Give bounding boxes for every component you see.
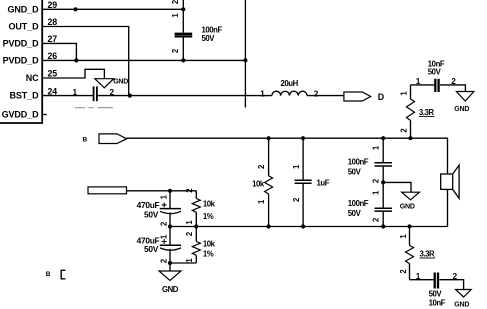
svg-text:1: 1 bbox=[73, 87, 78, 97]
svg-text:2: 2 bbox=[171, 0, 180, 4]
node 100nF mid / GND bbox=[381, 180, 385, 184]
svg-text:2: 2 bbox=[185, 231, 194, 236]
svg-text:1: 1 bbox=[292, 164, 301, 169]
svg-text:PVDD_D: PVDD_D bbox=[3, 55, 40, 65]
svg-text:2: 2 bbox=[257, 164, 266, 169]
svg-text:GVDD_D: GVDD_D bbox=[2, 110, 40, 120]
GND symbol top right bbox=[456, 92, 474, 102]
resistor 3.3R top zigzag bbox=[407, 99, 415, 121]
svg-text:2: 2 bbox=[185, 188, 194, 193]
svg-text:10k: 10k bbox=[252, 179, 265, 188]
resistor 10k-1 zigzag bbox=[192, 199, 200, 213]
svg-text:3.3R: 3.3R bbox=[420, 250, 435, 259]
resistor 3.3R bottom leads bbox=[409, 227, 411, 280]
pin 24 wire BST_D left segment bbox=[42, 95, 93, 97]
node input wire / cap chain bbox=[168, 189, 172, 193]
svg-text:NC: NC bbox=[26, 73, 39, 83]
port D flag bbox=[344, 92, 371, 101]
node bottom wire / 3.3R bottom bbox=[407, 224, 411, 228]
svg-text:1: 1 bbox=[399, 234, 408, 239]
resistor 10k-2 leads bbox=[195, 227, 197, 264]
svg-text:1%: 1% bbox=[203, 212, 214, 221]
svg-text:29: 29 bbox=[48, 0, 58, 10]
svg-text:2: 2 bbox=[314, 88, 319, 98]
capacitor C470uF-2 leads bbox=[169, 227, 171, 264]
svg-text:50V: 50V bbox=[144, 244, 159, 254]
node cap bottom on pin26 wire bbox=[181, 58, 185, 62]
IC pin number labels bbox=[48, 0, 58, 96]
svg-text:1: 1 bbox=[371, 145, 380, 150]
wire net B horizontal bbox=[127, 138, 448, 174]
capacitor BST_D bootstrap plates bbox=[94, 86, 97, 101]
svg-text:2: 2 bbox=[292, 197, 301, 202]
node cap2 bottom / GND bbox=[168, 261, 172, 265]
rotated pin digits bbox=[159, 13, 408, 274]
IC pin name labels bbox=[2, 4, 40, 119]
svg-text:PVDD_D: PVDD_D bbox=[3, 38, 40, 48]
wire mid node to GND right bbox=[383, 182, 411, 192]
GND symbol near NC pin bbox=[95, 79, 114, 88]
svg-text:2: 2 bbox=[171, 48, 180, 53]
svg-text:GND: GND bbox=[454, 106, 469, 113]
pin 26 wire PVDD_D bbox=[42, 59, 245, 61]
svg-text:1: 1 bbox=[185, 258, 194, 263]
svg-text:1%: 1% bbox=[203, 250, 214, 259]
capacitor C 100nF top lead bbox=[182, 0, 184, 33]
wire bottom horizontal to speaker bbox=[170, 189, 448, 226]
svg-text:D: D bbox=[378, 92, 384, 102]
wire from input connector to resistor chain bbox=[127, 190, 197, 192]
node on pin29 wire bbox=[73, 7, 77, 11]
capacitor 10nF top wire bbox=[411, 85, 466, 92]
node bottom wire / 100nF chain bbox=[381, 224, 385, 228]
svg-text:GND: GND bbox=[162, 285, 179, 294]
inductor L 20uH bbox=[272, 91, 307, 95]
svg-text:1: 1 bbox=[400, 91, 409, 96]
GVDD_D pin stub bbox=[42, 114, 47, 116]
capacitor C470uF-1 leads bbox=[169, 191, 171, 227]
capacitor C 100nF bottom lead bbox=[182, 37, 184, 60]
svg-text:100nF: 100nF bbox=[348, 199, 369, 208]
svg-text:3.3R: 3.3R bbox=[419, 108, 434, 117]
capacitor 10nF top plates bbox=[435, 79, 438, 92]
faint dashed annotation under BST cap bbox=[75, 107, 113, 109]
node B line / 10k bbox=[267, 136, 271, 140]
resistor 3.3R top leads bbox=[410, 85, 412, 138]
svg-text:50V: 50V bbox=[348, 209, 362, 218]
node bottom wire / 10k chain bbox=[194, 224, 198, 228]
svg-text:50V: 50V bbox=[428, 68, 442, 77]
node bottom wire / cap chain bbox=[168, 224, 172, 228]
svg-text:OUT_D: OUT_D bbox=[8, 22, 39, 32]
resistor 10k mid leads bbox=[268, 138, 270, 226]
resistor 3.3R bottom zigzag bbox=[406, 245, 414, 263]
svg-text:2: 2 bbox=[451, 76, 456, 86]
bracket glyph bottom left bbox=[61, 270, 65, 279]
pin 24 wire BST_D right segment to inductor bbox=[97, 95, 272, 97]
svg-text:1: 1 bbox=[185, 220, 194, 225]
capacitor 470uF-2 plates with polarity bbox=[160, 239, 181, 250]
wire from inductor to port D bbox=[307, 95, 344, 97]
svg-text:2: 2 bbox=[399, 269, 408, 274]
node pin26 wire / bus bbox=[243, 58, 247, 62]
svg-text:50V: 50V bbox=[429, 289, 443, 298]
node B line / 1uF bbox=[301, 136, 305, 140]
svg-text:27: 27 bbox=[48, 34, 58, 44]
svg-text:1: 1 bbox=[416, 76, 421, 86]
svg-text:1: 1 bbox=[257, 199, 266, 204]
svg-text:1: 1 bbox=[260, 88, 265, 98]
svg-text:1: 1 bbox=[416, 271, 421, 281]
node cap top on pin29 wire bbox=[181, 7, 185, 11]
svg-text:10k: 10k bbox=[203, 200, 216, 209]
svg-text:50V: 50V bbox=[144, 210, 159, 220]
svg-text:GND_D: GND_D bbox=[7, 4, 39, 14]
capacitor chain 100nF leads bbox=[382, 138, 384, 226]
GND symbol below 470uF caps bbox=[159, 271, 181, 281]
svg-text:10k: 10k bbox=[203, 240, 216, 249]
svg-text:26: 26 bbox=[48, 51, 58, 61]
svg-text:1: 1 bbox=[159, 194, 168, 199]
svg-text:2: 2 bbox=[453, 271, 458, 281]
IC U1 body (right edge and bottom edge, clipped at image edges) bbox=[0, 0, 42, 123]
GND symbol mid right bbox=[402, 192, 420, 200]
svg-text:B: B bbox=[46, 271, 51, 278]
svg-text:B: B bbox=[83, 136, 88, 143]
svg-text:2: 2 bbox=[159, 221, 168, 226]
svg-text:2: 2 bbox=[159, 258, 168, 263]
svg-text:1: 1 bbox=[371, 190, 380, 195]
node B line / 100nF chain bbox=[381, 136, 385, 140]
resistor 10k-2 zigzag bbox=[192, 242, 200, 256]
vertical bus wire at right of cap bbox=[244, 0, 246, 108]
svg-text:20uH: 20uH bbox=[281, 79, 299, 88]
bottom node wire to GND bbox=[170, 263, 196, 271]
svg-text:10nF: 10nF bbox=[429, 298, 446, 307]
node pin28 / BST wire bbox=[128, 94, 132, 98]
node bottom wire / 10k mid bbox=[267, 224, 271, 228]
pin 28 wire OUT_D bbox=[42, 27, 129, 96]
svg-text:50V: 50V bbox=[202, 34, 216, 43]
svg-text:2: 2 bbox=[400, 128, 409, 133]
pin 25 wire NC bbox=[42, 69, 104, 78]
svg-text:1: 1 bbox=[159, 234, 168, 239]
GND symbol bottom right bbox=[456, 290, 472, 298]
svg-text:GND: GND bbox=[400, 204, 415, 211]
capacitor 1uF plates bbox=[295, 180, 312, 183]
svg-text:25: 25 bbox=[48, 69, 58, 79]
capacitor 10nF bottom wire bbox=[410, 280, 464, 290]
svg-text:BST_D: BST_D bbox=[9, 91, 39, 101]
svg-text:GND: GND bbox=[454, 301, 469, 308]
svg-text:1uF: 1uF bbox=[317, 178, 330, 187]
svg-text:GND: GND bbox=[113, 79, 128, 86]
resistor 10k-1 leads bbox=[195, 191, 197, 227]
capacitor 100nF-1 plates (right chain) bbox=[375, 163, 393, 166]
resistor 10k mid zigzag bbox=[265, 176, 273, 194]
svg-text:1: 1 bbox=[171, 13, 180, 18]
svg-text:50V: 50V bbox=[348, 168, 362, 177]
port B flag bbox=[99, 134, 127, 144]
capacitor 470uF-1 plates with polarity bbox=[160, 203, 181, 214]
pin 27 wire PVDD_D bbox=[42, 43, 76, 60]
pin 29 wire GND_D bbox=[42, 8, 183, 10]
node B line / 3.3R bbox=[408, 136, 412, 140]
node bottom wire / 1uF bbox=[301, 224, 305, 228]
svg-text:28: 28 bbox=[48, 17, 58, 27]
capacitor C 100nF plates (near IC) bbox=[175, 34, 193, 37]
svg-text:100nF: 100nF bbox=[348, 157, 369, 166]
input connector rectangle bbox=[88, 187, 127, 194]
speaker LS bbox=[441, 165, 459, 198]
svg-text:24: 24 bbox=[48, 86, 58, 96]
capacitor 10nF bottom plates bbox=[435, 273, 438, 289]
svg-text:2: 2 bbox=[371, 178, 380, 183]
node pin27/pin26 bbox=[74, 58, 78, 62]
capacitor 1uF leads bbox=[302, 138, 304, 226]
svg-text:2: 2 bbox=[110, 87, 115, 97]
capacitor 100nF-2 plates (right chain) bbox=[375, 208, 393, 211]
svg-text:2: 2 bbox=[371, 217, 380, 222]
